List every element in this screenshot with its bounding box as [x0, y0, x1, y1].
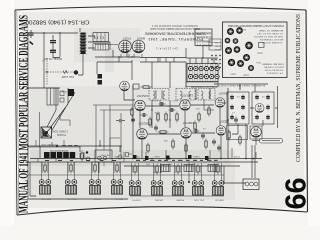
svg-text:ADJUST TRIMMERS: ADJUST TRIMMERS	[259, 38, 283, 41]
svg-text:470M: 470M	[155, 111, 160, 113]
svg-text:250M: 250M	[154, 155, 160, 157]
svg-text:TUNING: TUNING	[57, 133, 66, 136]
svg-text:15M: 15M	[192, 163, 196, 165]
svg-text:ALIGNMENT OF TUNER: ALIGNMENT OF TUNER	[259, 29, 283, 32]
svg-text:455KC: 455KC	[151, 99, 158, 101]
svg-text:1ST I.F.: 1ST I.F.	[93, 198, 101, 200]
svg-text:PUSH BUTTON: PUSH BUTTON	[41, 143, 58, 145]
svg-text:OF CHASSIS: OF CHASSIS	[266, 72, 283, 75]
svg-text:5Y3GT: 5Y3GT	[122, 37, 131, 41]
svg-text:5 1 7 2: 5 1 7 2	[94, 36, 104, 40]
svg-text:TUBE AND TRIMMER: TUBE AND TRIMMER	[262, 63, 284, 66]
svg-text:2 MEG: 2 MEG	[193, 155, 200, 157]
svg-text:CHASSIS LAYOUT VIEWED FROM BOT: CHASSIS LAYOUT VIEWED FROM BOTTOM SIDE	[228, 24, 284, 27]
svg-text:C-154: C-154	[214, 41, 220, 43]
svg-text:12SA7: 12SA7	[242, 74, 249, 77]
svg-text:DIAL CORD: DIAL CORD	[197, 31, 211, 34]
svg-text:12SK7: 12SK7	[229, 73, 236, 75]
svg-text:OSC: OSC	[253, 35, 258, 37]
svg-text:FILTER: FILTER	[176, 199, 184, 201]
svg-text:CH-1234-A-1: CH-1234-A-1	[155, 47, 178, 51]
svg-text:20 MF: 20 MF	[233, 155, 240, 157]
svg-text:FOR MAX OUTPUT: FOR MAX OUTPUT	[261, 41, 282, 44]
svg-text:6K6GT: 6K6GT	[136, 37, 145, 41]
svg-text:COMPILED BY M. N. BEITMAN, SUP: COMPILED BY M. N. BEITMAN, SUPREME PUBLI…	[295, 14, 302, 162]
svg-text:12SK7GT: 12SK7GT	[182, 121, 194, 125]
svg-text:2ND I.F.: 2ND I.F.	[115, 198, 123, 200]
svg-text:SCHEMATIC WIRING DIAGRAM NO 2: SCHEMATIC WIRING DIAGRAM NO 2	[151, 24, 198, 27]
svg-text:12SK7GT: 12SK7GT	[181, 94, 193, 98]
svg-text:66: 66	[281, 178, 313, 210]
svg-text:10M: 10M	[164, 139, 168, 141]
svg-text:12SA7GT: 12SA7GT	[136, 94, 148, 98]
svg-text:DIAL LAMP: DIAL LAMP	[61, 75, 74, 78]
svg-text:12SQ7: 12SQ7	[256, 52, 263, 54]
svg-text:100M: 100M	[154, 171, 160, 173]
svg-text:OSC COIL: OSC COIL	[66, 198, 77, 200]
svg-text:CHOKE: CHOKE	[155, 199, 163, 201]
svg-text:2 GANG COND: 2 GANG COND	[51, 130, 68, 133]
svg-text:50L6GT: 50L6GT	[218, 92, 228, 96]
svg-text:.1MF: .1MF	[215, 163, 220, 165]
svg-text:SUPERHETERODYNE DIAGRAMS: SUPERHETERODYNE DIAGRAMS	[145, 32, 206, 37]
svg-text:SWITCH: SWITCH	[215, 199, 224, 201]
svg-text:OUTPUT: OUTPUT	[131, 199, 141, 201]
svg-text:.05 MF: .05 MF	[61, 90, 68, 92]
svg-text:455KC: 455KC	[171, 99, 178, 101]
svg-text:MODEL CR-154: MODEL CR-154	[43, 57, 62, 60]
svg-text:WAVE BAND SW: WAVE BAND SW	[49, 149, 68, 152]
svg-text:FROM BOTTOM: FROM BOTTOM	[265, 69, 283, 71]
svg-text:500M: 500M	[114, 155, 120, 157]
svg-text:A-512: A-512	[214, 48, 220, 51]
svg-text:ALIGNMENT CHART SEE PAGE 4 FOR: ALIGNMENT CHART SEE PAGE 4 FOR I.F.	[217, 84, 265, 87]
svg-text:I.F. PEAK 455 KC SET: I.F. PEAK 455 KC SET	[256, 32, 283, 35]
svg-text:POWERFUL "SAIRE" 1941: POWERFUL "SAIRE" 1941	[147, 37, 203, 42]
svg-text:B-760: B-760	[214, 45, 220, 47]
svg-text:50M: 50M	[136, 155, 140, 157]
svg-text:VOL CON: VOL CON	[194, 199, 204, 201]
svg-text:DIAL AT 1620 KC AND: DIAL AT 1620 KC AND	[258, 35, 283, 38]
svg-text:.0001: .0001	[139, 127, 145, 129]
svg-text:CR-154 (1940) 588200: CR-154 (1940) 588200	[26, 19, 90, 25]
svg-text:ANT COIL: ANT COIL	[40, 198, 51, 201]
svg-text:P.B. UNIT: P.B. UNIT	[100, 154, 110, 156]
svg-text:LAYOUT VIEWED: LAYOUT VIEWED	[264, 66, 284, 69]
svg-text:12SQ7GT: 12SQ7GT	[138, 122, 150, 126]
svg-text:TUBULAR CONDENSER: TUBULAR CONDENSER	[191, 85, 217, 88]
svg-text:33M: 33M	[146, 163, 150, 165]
svg-text:2-76 DRUM: 2-76 DRUM	[197, 35, 211, 37]
